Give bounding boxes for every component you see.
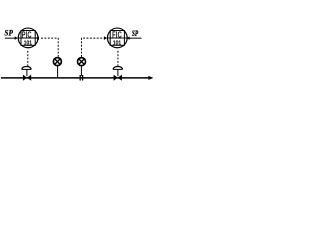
svg-text:SP: SP: [132, 29, 139, 39]
svg-text:FIC: FIC: [112, 32, 122, 40]
svg-text:101: 101: [24, 40, 32, 46]
svg-text:SP: SP: [4, 28, 13, 38]
svg-text:PIC: PIC: [22, 31, 32, 39]
svg-text:101: 101: [113, 40, 121, 46]
